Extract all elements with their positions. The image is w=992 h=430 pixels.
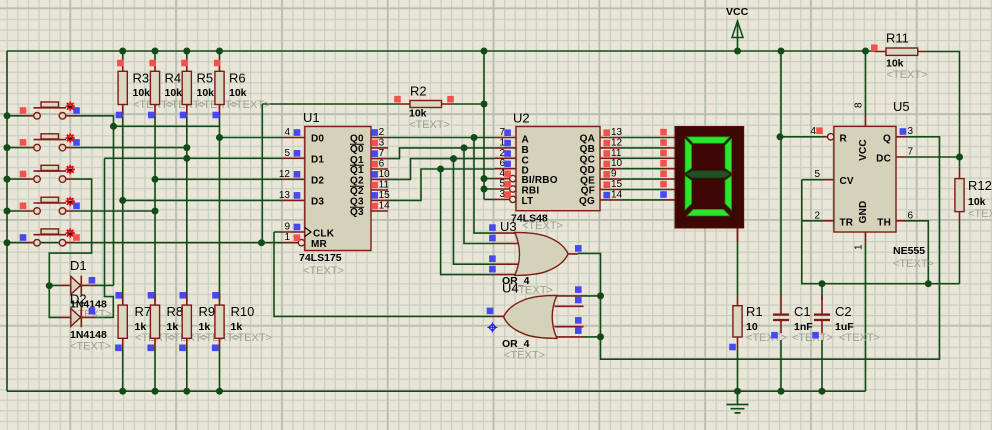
svg-text:5: 5 [284,148,290,159]
svg-text:R8: R8 [167,304,184,319]
svg-text:R5: R5 [197,71,214,86]
svg-text:R9: R9 [199,304,216,319]
svg-text:<TEXT>: <TEXT> [893,258,934,270]
svg-text:14: 14 [379,201,391,212]
svg-text:14: 14 [611,189,623,200]
svg-text:GND: GND [858,201,869,224]
svg-text:U4: U4 [502,281,519,296]
svg-text:<TEXT>: <TEXT> [231,332,272,344]
svg-text:6: 6 [908,210,914,221]
svg-text:U2: U2 [513,111,530,126]
svg-text:TR: TR [840,217,854,228]
svg-text:U5: U5 [893,99,910,114]
svg-text:10k: 10k [229,87,247,99]
svg-text:15: 15 [379,190,391,201]
svg-text:CLK: CLK [313,228,335,239]
svg-text:DC: DC [876,154,891,165]
svg-text:4: 4 [810,126,816,137]
svg-text:<TEXT>: <TEXT> [887,69,928,81]
svg-text:10k: 10k [197,87,215,99]
svg-text:BI/RBO: BI/RBO [522,175,558,186]
svg-text:OR_4: OR_4 [502,338,530,350]
svg-text:<TEXT>: <TEXT> [230,99,271,111]
svg-text:QB: QB [580,144,595,155]
svg-text:C: C [522,155,529,166]
svg-text:VCC: VCC [726,6,749,18]
svg-text:9: 9 [611,169,617,180]
svg-text:QA: QA [580,134,595,145]
svg-text:<TEXT>: <TEXT> [746,332,787,344]
svg-text:R10: R10 [231,304,255,319]
svg-text:2: 2 [379,127,385,138]
svg-text:LT: LT [522,196,534,207]
svg-text:Q2: Q2 [350,186,364,197]
svg-text:R6: R6 [229,71,246,86]
svg-text:10k: 10k [886,58,904,70]
svg-text:10k: 10k [165,87,183,99]
svg-text:10k: 10k [133,87,151,99]
svg-text:U1: U1 [303,110,320,125]
svg-text:10k: 10k [409,108,427,120]
svg-text:12: 12 [611,137,623,148]
svg-text:A: A [522,135,529,146]
svg-text:MR: MR [311,239,328,250]
svg-text:NE555: NE555 [893,245,925,257]
svg-text:D1: D1 [311,154,324,165]
svg-text:Q3: Q3 [350,207,364,218]
svg-text:1N4148: 1N4148 [70,329,107,341]
svg-text:R7: R7 [135,304,152,319]
svg-text:10: 10 [379,169,391,180]
svg-text:15: 15 [611,179,623,190]
svg-text:C1: C1 [794,304,811,319]
svg-text:QD: QD [580,165,595,176]
svg-text:TH: TH [877,217,891,228]
svg-text:3: 3 [908,126,914,137]
svg-text:7: 7 [908,146,914,157]
svg-text:Q: Q [883,133,891,144]
svg-text:R4: R4 [165,71,182,86]
svg-text:6: 6 [379,159,385,170]
svg-text:2: 2 [814,210,820,221]
svg-text:11: 11 [379,180,390,191]
svg-text:QF: QF [581,186,595,197]
svg-text:D2: D2 [311,175,324,186]
svg-text:Q2: Q2 [350,176,364,187]
svg-text:12: 12 [279,169,291,180]
svg-text:QG: QG [579,196,595,207]
svg-text:<TEXT>: <TEXT> [504,350,545,362]
svg-text:R2: R2 [410,84,427,99]
svg-text:VCC: VCC [858,139,869,161]
svg-text:D1: D1 [70,258,87,273]
svg-text:7: 7 [379,148,385,159]
svg-text:Q0: Q0 [350,134,364,145]
svg-text:11: 11 [611,148,622,159]
svg-text:C2: C2 [835,304,852,319]
svg-text:<TEX: <TEX [968,208,992,220]
svg-text:5: 5 [814,169,820,180]
svg-text:R12: R12 [968,178,992,193]
svg-text:1: 1 [854,244,865,250]
svg-text:74LS175: 74LS175 [299,252,342,264]
svg-text:13: 13 [279,190,291,201]
svg-text:B: B [522,145,529,156]
svg-text:Q3: Q3 [350,197,364,208]
svg-text:RBI: RBI [522,186,540,197]
svg-text:QC: QC [580,155,595,166]
svg-text:R3: R3 [133,71,150,86]
svg-text:R1: R1 [746,304,763,319]
svg-text:<TEXT>: <TEXT> [409,119,450,131]
svg-text:4: 4 [284,127,290,138]
svg-text:<TEXT>: <TEXT> [522,220,563,232]
svg-text:<TEXT>: <TEXT> [303,265,344,277]
svg-text:CV: CV [840,176,854,187]
svg-text:D3: D3 [311,196,324,207]
svg-text:R11: R11 [886,31,909,46]
svg-text:Q1: Q1 [350,155,364,166]
svg-text:<TEXT>: <TEXT> [70,341,111,353]
svg-text:Q1: Q1 [350,165,364,176]
svg-text:<TEXT>: <TEXT> [839,332,880,344]
svg-text:3: 3 [379,137,385,148]
svg-text:D0: D0 [311,134,324,145]
svg-text:10: 10 [611,158,623,169]
svg-text:10k: 10k [968,196,986,208]
svg-text:R: R [840,133,848,144]
svg-text:13: 13 [611,127,623,138]
svg-text:9: 9 [284,222,290,233]
svg-text:Q0: Q0 [350,144,364,155]
svg-text:1: 1 [284,232,290,243]
svg-text:QE: QE [580,175,595,186]
svg-text:8: 8 [854,102,865,108]
